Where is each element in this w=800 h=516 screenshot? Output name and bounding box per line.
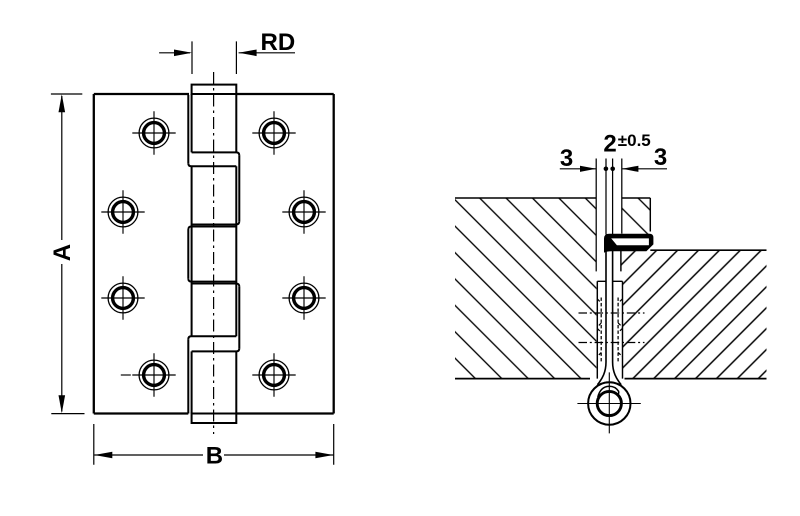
svg-text:3: 3 (654, 144, 667, 171)
svg-text:±0.5: ±0.5 (618, 131, 651, 150)
svg-text:A: A (49, 244, 76, 261)
svg-text:3: 3 (560, 145, 573, 172)
svg-text:2: 2 (603, 131, 616, 158)
svg-text:B: B (206, 443, 223, 470)
svg-text:RD: RD (261, 29, 296, 56)
